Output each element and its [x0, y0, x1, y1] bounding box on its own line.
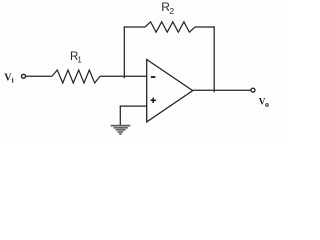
svg-text:1: 1 [77, 55, 82, 64]
svg-text:o: o [265, 100, 269, 109]
wire: feedback left vertical (node A up) [123, 26, 125, 78]
wire: feedback top left segment [124, 26, 145, 28]
wire: R1 to op-amp inverting input (through node A) [100, 75, 147, 77]
label R2 [161, 0, 174, 16]
wire: ground to non-inverting input [120, 105, 147, 107]
pin label: non-inverting input (+) [151, 98, 156, 103]
svg-text:2: 2 [169, 6, 174, 16]
wire: ground stem [119, 106, 121, 125]
node Vi input label [4, 73, 13, 85]
ground [111, 125, 131, 135]
wire: feedback top right segment [195, 26, 215, 28]
resistor R2 [145, 22, 195, 32]
op-amp U1 [147, 60, 193, 122]
node vo output label [259, 96, 269, 109]
wire: input terminal to R1 [26, 75, 52, 77]
pin label: inverting input (-) [151, 76, 156, 78]
label R1 [70, 51, 82, 64]
output terminal (open circle) [251, 88, 255, 92]
wire: op-amp output to output terminal [193, 89, 251, 91]
resistor R1 [52, 70, 100, 83]
wire: feedback right vertical down to output node [213, 26, 215, 92]
svg-text:i: i [12, 77, 14, 85]
input terminal (open circle) [22, 74, 26, 78]
